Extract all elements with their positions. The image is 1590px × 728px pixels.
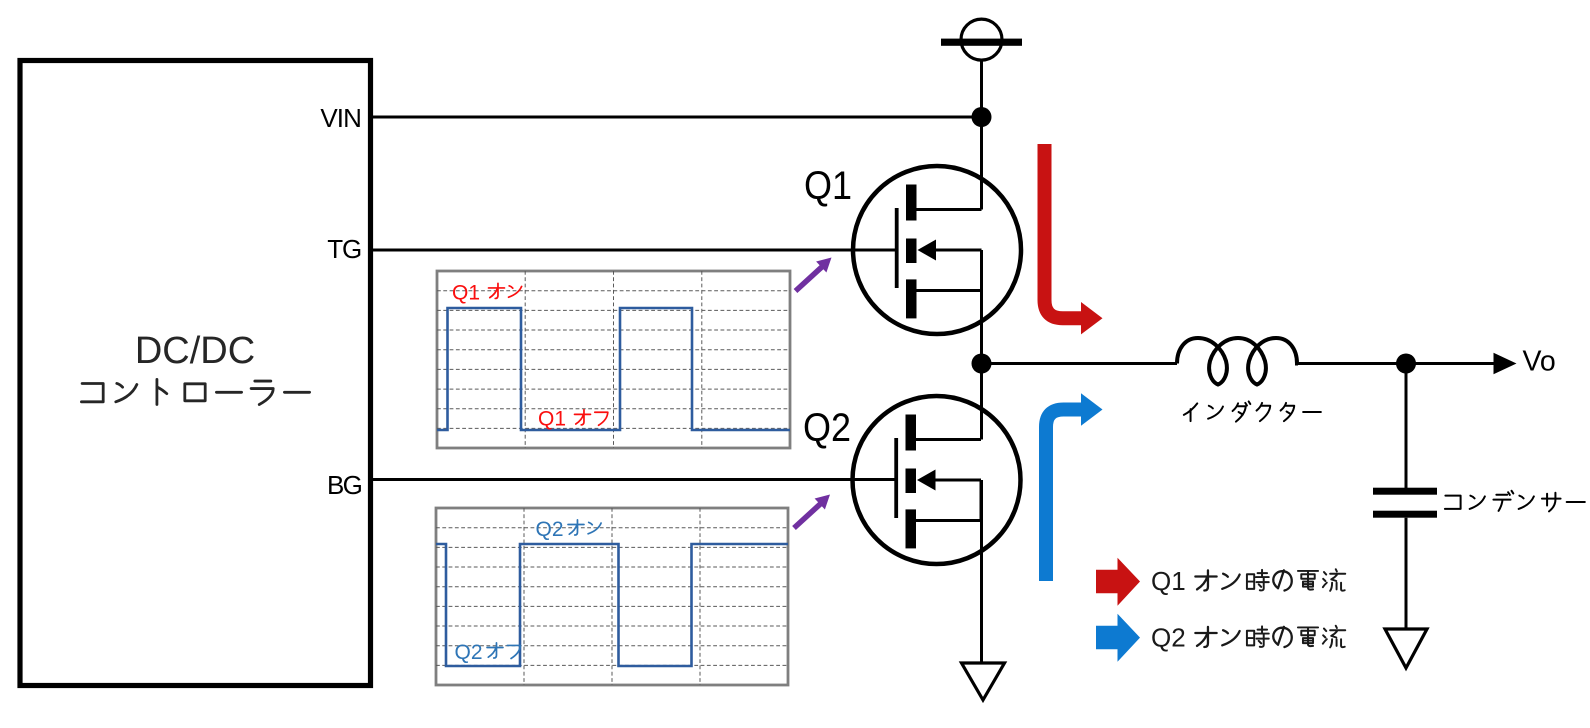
wire Q2 source to ground — [980, 480, 983, 663]
power input terminal symbol — [941, 19, 1022, 60]
wire inductor to output node — [1298, 362, 1406, 365]
capacitor C1 — [1373, 488, 1437, 518]
svg-text:Q2: Q2 — [1151, 623, 1186, 653]
svg-text:Vo: Vo — [1523, 346, 1556, 378]
svg-text:Q1: Q1 — [1151, 566, 1186, 596]
ground symbol under Q2 — [962, 663, 1005, 700]
node SW junction dot — [972, 354, 992, 374]
transistor Q1 (high-side MOSFET) — [853, 166, 1021, 334]
svg-text:Q1: Q1 — [804, 164, 852, 208]
wire SW node to Q2 drain — [980, 364, 983, 440]
pointer arrow from BG waveform to Q2 gate (purple) — [794, 495, 830, 529]
oscilloscope plot frame 1 — [437, 271, 790, 448]
svg-text:VIN: VIN — [320, 103, 361, 133]
wire output node to capacitor — [1405, 364, 1408, 489]
transistor Q2 (low-side MOSFET) — [853, 396, 1021, 564]
wire TG from controller to Q1 gate — [373, 249, 896, 252]
current arrow Q2 on-state (blue) — [1046, 393, 1103, 581]
grid lines plot 2 — [436, 508, 788, 685]
label capacitor (katakana kondensa-) — [1445, 491, 1585, 512]
oscilloscope plot frame 2 — [436, 508, 788, 685]
svg-text:DC/DC: DC/DC — [135, 330, 255, 372]
legend label Q2 on-time current — [1151, 623, 1345, 653]
wire BG from controller to Q2 gate — [373, 478, 896, 481]
legend red arrow (Q1 on current) — [1096, 558, 1140, 606]
grid lines plot 1 — [437, 271, 790, 448]
svg-text:BG: BG — [327, 470, 362, 500]
waveform trace plot 2 — [436, 544, 788, 666]
wire capacitor to ground — [1405, 518, 1408, 629]
svg-text:Q2: Q2 — [803, 406, 851, 450]
wire output node to Vo arrow — [1406, 353, 1517, 374]
label controller katakana line2 — [81, 379, 309, 404]
wire SW node to inductor — [982, 362, 1178, 365]
label inductor (katakanaindakuta-) — [1184, 401, 1321, 421]
label Q2 on (blue) — [536, 518, 602, 541]
wire Q1 source to SW node — [980, 250, 983, 364]
waveform trace plot 1 — [437, 308, 790, 430]
label Q2 off (blue) — [455, 641, 521, 664]
svg-text:TG: TG — [327, 234, 361, 264]
DC/DC controller IC U1 box — [20, 61, 371, 686]
wire VIN rail (terminal to Q1 drain) — [980, 60, 983, 210]
node VIN junction dot — [972, 107, 992, 127]
node Vo junction dot — [1396, 354, 1416, 374]
label Q1 off (red) — [538, 408, 608, 431]
label Q1 on (red) — [452, 282, 522, 305]
svg-text:Q2: Q2 — [536, 518, 564, 541]
oscilloscope waveform TG (Q1 gate drive) — [437, 271, 790, 448]
wire VIN from controller to rail — [373, 116, 982, 119]
inductor L1 — [1177, 338, 1298, 385]
pointer arrow from TG waveform to Q1 gate (purple) — [796, 258, 832, 292]
legend label Q1 on-time current — [1151, 566, 1345, 596]
oscilloscope waveform BG (Q2 gate drive) — [436, 508, 788, 685]
legend blue arrow (Q2 on current) — [1096, 614, 1140, 662]
current arrow Q1 on-state (red) — [1045, 144, 1103, 334]
svg-text:Q1: Q1 — [538, 408, 566, 431]
svg-text:Q1: Q1 — [452, 282, 480, 305]
ground symbol under capacitor — [1385, 629, 1427, 668]
svg-text:Q2: Q2 — [455, 641, 483, 664]
